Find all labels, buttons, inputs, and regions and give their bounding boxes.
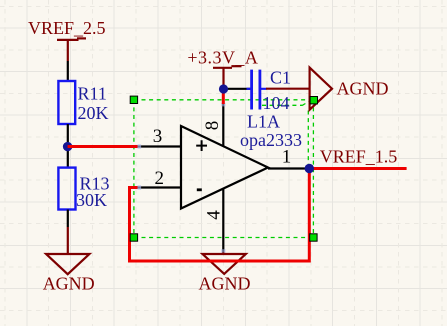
wire R11 to R13 [67, 124, 69, 168]
power port +3.3V_A [187, 47, 258, 89]
svg-text:8: 8 [202, 121, 223, 131]
svg-text:20K: 20K [78, 103, 109, 123]
wire feedback loop pin2 to output [130, 172, 310, 261]
wire node to C1 [227, 88, 251, 90]
svg-text:4: 4 [204, 210, 225, 220]
svg-text:30K: 30K [76, 190, 107, 210]
ground AGND below op-amp [199, 253, 251, 294]
extra selection dashes near AGND port [262, 101, 309, 164]
power port VREF_2.5 [28, 18, 106, 61]
svg-text:opa2333: opa2333 [240, 130, 302, 150]
wire divider to pin 3 [68, 145, 138, 148]
svg-text:AGND: AGND [43, 273, 95, 293]
junction output node [305, 164, 314, 173]
selection handle bottom-left [130, 234, 137, 241]
resistor R11 [58, 81, 75, 124]
wire output to VREF_1.5 [309, 167, 406, 170]
svg-text:AGND: AGND [199, 273, 251, 293]
junction divider node [63, 142, 72, 151]
svg-text:1: 1 [282, 147, 292, 168]
selection handle top-right [310, 97, 317, 104]
pin 2 [138, 168, 182, 190]
svg-text:104: 104 [263, 93, 290, 113]
svg-text:R11: R11 [78, 84, 107, 104]
svg-text:3: 3 [153, 126, 163, 147]
selection handle top-left [130, 96, 137, 103]
resistor R13 [58, 168, 75, 210]
ground AGND top right [310, 68, 389, 110]
selection handle bottom-right [310, 234, 317, 241]
pin 3 [138, 126, 182, 149]
pin 1 output [268, 147, 309, 169]
svg-text:C1: C1 [270, 67, 291, 87]
capacitor C1 [247, 67, 292, 113]
svg-text:+3.3V_A: +3.3V_A [187, 47, 258, 67]
svg-text:AGND: AGND [337, 78, 389, 98]
op-amp U L1A [181, 111, 302, 208]
svg-text:VREF_1.5: VREF_1.5 [320, 147, 398, 167]
svg-text:L1A: L1A [247, 111, 280, 131]
svg-text:VREF_2.5: VREF_2.5 [28, 18, 106, 38]
pin 8 [202, 103, 226, 147]
ground AGND left [43, 254, 95, 293]
wire C1 to AGND port [266, 88, 310, 90]
selection box dashed outline [134, 100, 314, 238]
svg-text:2: 2 [155, 168, 165, 189]
junction +3.3V node [219, 84, 228, 93]
wire +3.3V node to pin 8 (red) [222, 89, 225, 104]
wire VREF_2.5 to R11 [67, 61, 69, 82]
wire R13 to AGND [67, 210, 69, 228]
pin 4 [204, 189, 226, 253]
